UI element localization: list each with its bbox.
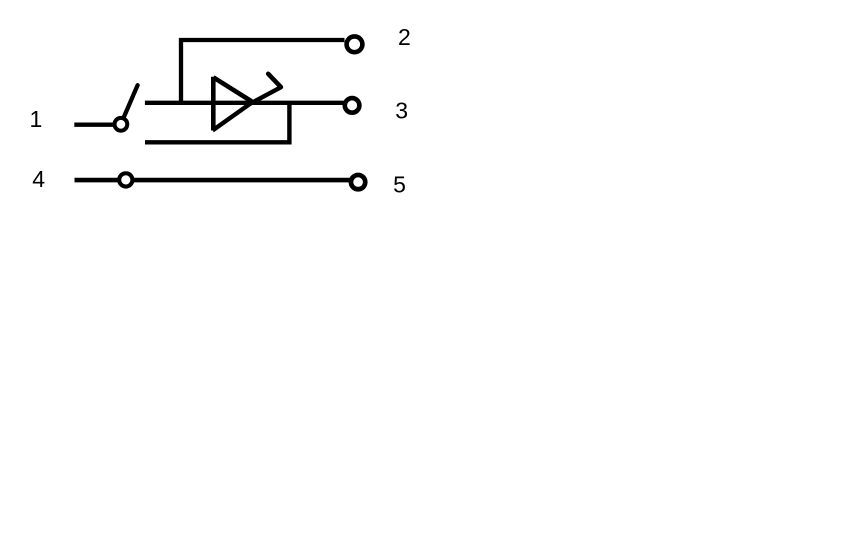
wire: bottom wire from terminal 4 to terminal 5: [75, 178, 350, 183]
wire: stub from terminal 1 to switch pivot: [74, 123, 114, 127]
terminal 2 circle: [347, 36, 363, 52]
wire: top wire to terminal 2 with vertical drop to middle wire: [181, 40, 345, 103]
wire: lower branch wire with vertical rise to middle wire: [145, 101, 289, 142]
switch SW1 lever: [124, 85, 138, 117]
svg-text:3: 3: [395, 98, 408, 124]
svg-text:2: 2: [398, 24, 411, 50]
diode D1 arrow barb: [268, 74, 281, 87]
diode D1 left vertical edge: [211, 77, 216, 131]
switch SW1 pivot circle: [115, 118, 128, 131]
diode D1 top edge: [213, 77, 252, 101]
svg-text:5: 5: [393, 171, 406, 197]
diode D1 diagonal arrow shaft: [213, 87, 281, 130]
svg-text:4: 4: [32, 166, 45, 192]
terminal 4 circle: [119, 173, 132, 186]
terminal 5 circle: [351, 175, 365, 189]
svg-text:1: 1: [30, 106, 43, 132]
wire: middle wire from switch to terminal 3: [145, 101, 344, 105]
terminal 3 circle: [345, 98, 360, 113]
